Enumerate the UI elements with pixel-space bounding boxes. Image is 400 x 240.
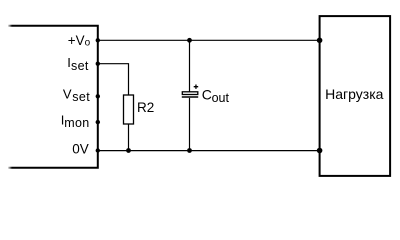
pin node +Vo (96, 38, 100, 42)
svg-text:set: set (71, 59, 89, 73)
svg-text:C: C (202, 86, 212, 102)
pin node Iset (96, 62, 100, 66)
wire 0V net (98, 150, 320, 152)
junction load/+Vo (317, 38, 323, 44)
resistor R2 (124, 95, 134, 124)
label Imon (61, 113, 90, 131)
pin node Vset (96, 94, 100, 98)
pin node Imon (96, 120, 100, 124)
label Cout (202, 86, 230, 105)
label +Vo (68, 33, 91, 49)
wire Cout top (189, 40, 191, 91)
svg-text:o: o (85, 38, 91, 49)
svg-text:mon: mon (64, 116, 89, 130)
junction R2/0V (126, 148, 131, 153)
capacitor Cout (182, 85, 198, 98)
wire fade-out left top (8, 24, 13, 29)
svg-text:out: out (212, 91, 230, 105)
svg-text:0V: 0V (72, 141, 89, 156)
wire fade-out left bottom (8, 166, 13, 171)
label Vset (63, 86, 90, 104)
wire +Vo net (98, 39, 320, 41)
power supply box (left, open at left edge) (8, 26, 98, 168)
junction load/0V (317, 148, 323, 154)
junction Cout/0V (187, 148, 192, 153)
svg-text:V: V (63, 86, 72, 101)
svg-text:Нагрузка: Нагрузка (325, 86, 383, 102)
svg-text:R2: R2 (137, 100, 154, 115)
wire Iset to R2 (98, 64, 129, 95)
wire R2 bottom (128, 124, 130, 151)
load box U2 (320, 16, 391, 176)
label Iset (67, 55, 89, 73)
junction Cout/+Vo (187, 38, 192, 43)
svg-text:+V: +V (68, 33, 85, 48)
pin node 0V (96, 148, 100, 152)
svg-text:set: set (72, 90, 90, 104)
wire Cout bottom (189, 98, 191, 151)
